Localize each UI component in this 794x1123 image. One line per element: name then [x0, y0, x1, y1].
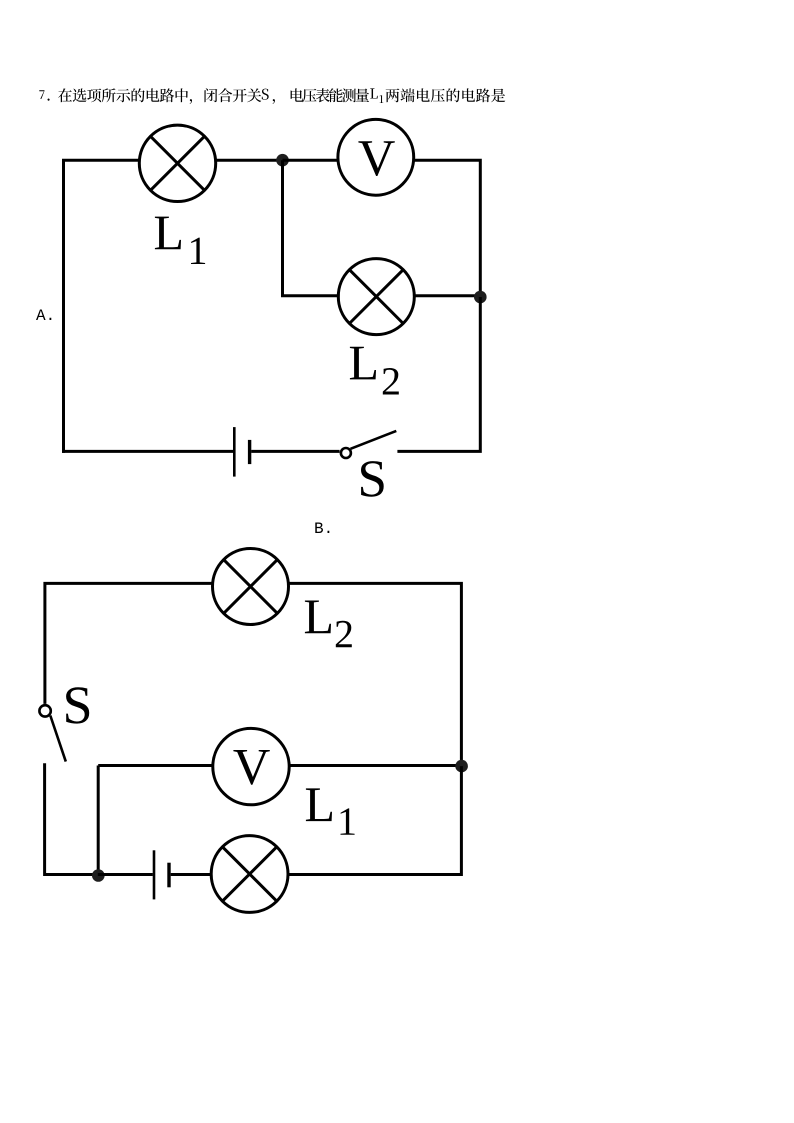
label L1 (circuit B) — [306, 788, 355, 834]
wire: switch S1 to battery BT1 — [251, 450, 339, 453]
wire: lamp L2 to node J2 — [414, 294, 480, 297]
node J1 (junction dot) — [276, 154, 289, 167]
wire: voltmeter branch riser from corner down to node J4 — [97, 766, 100, 876]
switch S2 (open knife switch) — [39, 705, 65, 761]
wire: lamp L1 to node J1 — [216, 159, 283, 162]
wire: A left rail and top-left segment to lamp L1 — [64, 160, 140, 453]
lamp L2 (circle with X) — [338, 259, 414, 335]
label S (circuit B) — [66, 687, 89, 723]
option label B. — [315, 523, 329, 534]
wire: battery BT1 to left rail — [62, 450, 233, 453]
node J2 (junction dot) — [474, 291, 487, 304]
label S (circuit A) — [361, 461, 384, 497]
lamp L1b (circle with X, bottom of circuit B) — [211, 836, 288, 913]
label L1 — [155, 217, 205, 264]
wire: node J1 to voltmeter U1 — [283, 159, 339, 162]
battery BT1 (cell: long and short plates) — [234, 427, 249, 477]
wire: branch corner to voltmeter U2 — [98, 764, 213, 767]
voltmeter U1 (V) — [338, 119, 414, 195]
wire: parallel branch from node J1 down and right to lamp L2 — [283, 160, 340, 296]
problem statement text: 7. 在选项所示的电路中，闭合开关S，电压表能测量L1两端电压的电路是 — [39, 88, 505, 104]
wire: B left rail below switch down to bottom-left corner — [45, 763, 98, 874]
voltmeter U2 (V) — [213, 728, 289, 804]
option label A. — [36, 310, 51, 321]
wire: lamp L1b along bottom rail to right rail up to node J3 — [288, 766, 461, 874]
label L2 (circuit B) — [305, 601, 352, 648]
wire: lamp L2b along top rail and right rail down to node J3 — [289, 583, 462, 766]
lamp L2b (circle with X) — [213, 549, 289, 625]
wire: voltmeter U2 to node J3 — [289, 764, 461, 767]
battery BT2 (cell: long and short plates) — [154, 850, 169, 899]
lamp L1 (circle with X) — [139, 125, 215, 201]
node J4 (junction dot on bottom rail) — [92, 869, 105, 882]
label L2 — [350, 347, 399, 395]
switch S1 (open knife switch) — [341, 431, 396, 458]
node J3 (junction dot on right rail) — [455, 760, 468, 773]
wire: B left rail from switch pivot up and top rail to lamp L2b — [45, 583, 213, 704]
wire: battery BT2 to lamp L1b — [171, 873, 212, 876]
wire: right rail down to bottom rail, left to switch S1 — [397, 297, 480, 451]
wire: node J4 to battery BT2 — [98, 873, 153, 876]
wire: voltmeter U1 to right rail down to node J2 — [414, 160, 481, 297]
